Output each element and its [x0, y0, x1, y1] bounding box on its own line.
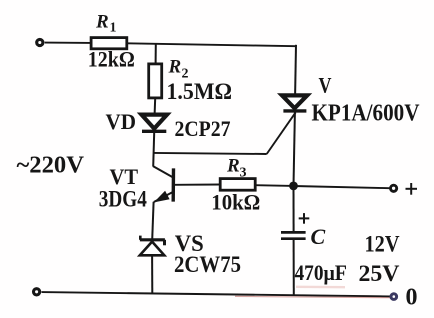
- svg-text:R: R: [226, 156, 240, 177]
- wire SCR cathode down to junction: [294, 112, 295, 186]
- svg-text:VT: VT: [110, 164, 139, 189]
- wire VS to bottom: [151, 255, 153, 293]
- bottom wire: [42, 292, 391, 296]
- wire junction to + terminal: [294, 186, 390, 188]
- svg-text:25V: 25V: [359, 261, 400, 286]
- svg-text:KP1A/600V: KP1A/600V: [312, 101, 421, 127]
- svg-text:3: 3: [240, 166, 247, 181]
- thyristor V anode wire: [294, 45, 297, 96]
- svg-text:1: 1: [110, 21, 117, 36]
- terminal bottom-left input: [34, 289, 40, 295]
- svg-text:VD: VD: [106, 109, 137, 134]
- svg-text:470: 470: [295, 260, 324, 285]
- zener VS: [140, 236, 165, 256]
- resistor R3: [220, 179, 255, 191]
- wire tap down to R2: [155, 44, 157, 64]
- transistor VT: [153, 166, 173, 202]
- svg-text:~220V: ~220V: [17, 153, 85, 179]
- svg-text:V: V: [319, 73, 332, 98]
- wire R3 to junction: [255, 184, 293, 187]
- capacitor C: [281, 232, 306, 238]
- thyristor V: [282, 95, 307, 111]
- red tint segment on bottom wire: [235, 296, 390, 297]
- svg-text:12V: 12V: [365, 232, 400, 257]
- svg-text:R: R: [168, 57, 182, 78]
- svg-text:3DG4: 3DG4: [99, 187, 147, 212]
- diode VD: [142, 115, 168, 132]
- wire gate horizontal: [154, 153, 267, 154]
- wire R2 to VD: [154, 98, 157, 115]
- resistor R1: [91, 38, 127, 49]
- wire base to R3: [175, 184, 220, 186]
- wire capacitor to bottom: [293, 240, 295, 296]
- terminal + output: [391, 185, 397, 191]
- capacitor C plus sign: [299, 213, 310, 224]
- terminal 0 output: [391, 294, 397, 300]
- svg-text:0: 0: [406, 285, 418, 311]
- svg-text:C: C: [311, 224, 326, 249]
- label +: [406, 183, 418, 195]
- terminal top-left input: [37, 39, 43, 45]
- wire R1 to SCR corner (top wire): [127, 43, 296, 46]
- svg-text:2CP27: 2CP27: [175, 116, 231, 141]
- wire top-left to R1: [45, 42, 91, 44]
- svg-text:10kΩ: 10kΩ: [211, 189, 260, 214]
- wire junction to capacitor: [293, 186, 295, 231]
- svg-text:μF: μF: [324, 260, 348, 285]
- wire emitter to VS: [152, 202, 153, 240]
- wire gate diagonal to SCR: [267, 112, 296, 154]
- resistor R2: [149, 64, 162, 98]
- svg-text:R: R: [95, 12, 109, 33]
- red smear under 470uF: [296, 286, 345, 289]
- svg-text:2CW75: 2CW75: [174, 252, 241, 277]
- svg-text:12kΩ: 12kΩ: [88, 46, 135, 71]
- wire VD to collector junction: [153, 133, 154, 167]
- node junction dot: [289, 182, 298, 191]
- svg-text:1.5MΩ: 1.5MΩ: [167, 79, 233, 104]
